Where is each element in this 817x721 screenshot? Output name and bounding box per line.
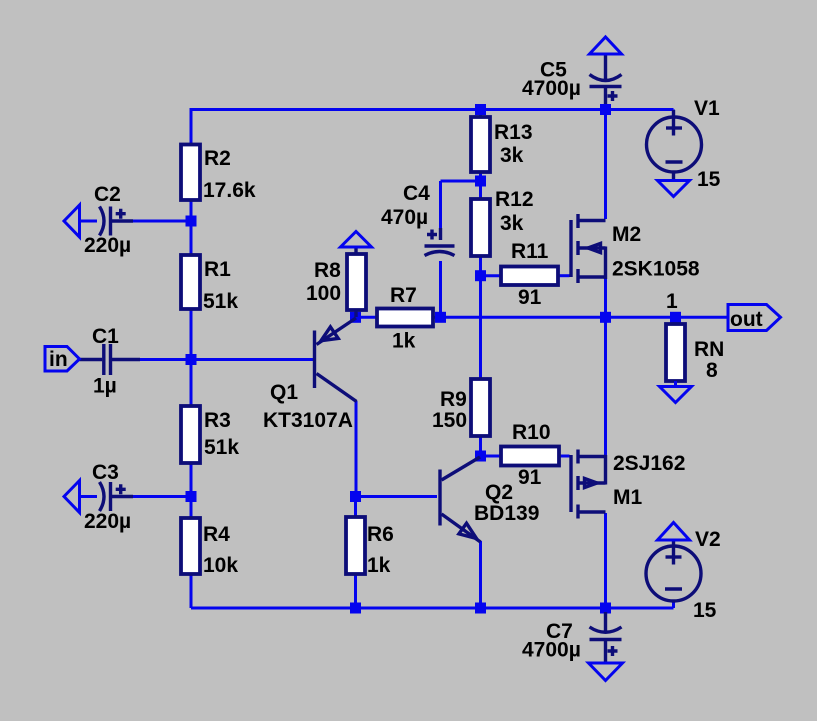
wire R1 to input node (190, 309, 193, 360)
wire R13 to R12 (479, 172, 482, 199)
port out (728, 305, 781, 332)
svg-text:R11: R11 (511, 240, 549, 263)
power arrow above C5 (590, 37, 622, 54)
wire V2 to bottom rail (672, 601, 675, 608)
svg-text:R9: R9 (440, 388, 467, 411)
svg-text:R3: R3 (204, 409, 231, 432)
svg-text:2SJ162: 2SJ162 (613, 452, 685, 475)
wire R11 node down to R9 (479, 276, 482, 379)
svg-text:2SK1058: 2SK1058 (612, 258, 700, 281)
node R6 bottom rail (350, 603, 361, 614)
wire C3 net (131, 495, 191, 498)
svg-text:1k: 1k (367, 554, 391, 577)
resistor RN 8 (666, 324, 724, 387)
svg-text:17.6k: 17.6k (203, 179, 256, 202)
node M2/M1 out (600, 312, 611, 323)
node R13 top (475, 104, 486, 115)
wire C3 node to R4 (190, 497, 193, 519)
svg-text:91: 91 (518, 466, 542, 489)
resistor R11 91 (501, 240, 558, 309)
resistor R3 51k (181, 406, 239, 463)
wire R9 to R10 node (479, 436, 482, 456)
wire input node to Q1 base (134, 358, 313, 361)
svg-text:M1: M1 (613, 486, 642, 509)
svg-text:R10: R10 (512, 421, 551, 444)
wire out net (676, 316, 730, 319)
svg-text:15: 15 (697, 168, 721, 191)
capacitor C4 470u (381, 182, 455, 256)
wire C4 vertical top (439, 181, 442, 240)
wire input node to R3 (190, 360, 193, 407)
ground arrow left of C2 (64, 205, 80, 237)
svg-text:R13: R13 (494, 121, 533, 144)
node R8/R7/Q1e (350, 312, 361, 323)
wire R8 node to R7 (356, 316, 378, 319)
capacitor C7 4700u (522, 612, 622, 663)
svg-text:R4: R4 (203, 523, 230, 546)
svg-text:BD139: BD139 (474, 502, 539, 525)
wire M1 source vertical from out node (604, 317, 607, 455)
wire R10 left stub (481, 455, 502, 458)
node R7/C4 (435, 312, 446, 323)
wire R3 to C3 node (190, 463, 193, 497)
wire M2 source vertical to out node (604, 278, 607, 317)
svg-text:R7: R7 (390, 284, 417, 307)
svg-text:1µ: 1µ (93, 375, 117, 398)
resistor R13 3k (471, 117, 533, 172)
wire R10 right stub to M1 gate (559, 455, 570, 458)
capacitor C2 220u (80, 183, 134, 257)
resistor R12 3k (471, 188, 534, 256)
svg-text:RN: RN (694, 338, 724, 361)
wire C4 top net (441, 180, 481, 183)
wire R11 left stub (481, 274, 502, 277)
svg-text:1: 1 (666, 290, 678, 313)
node C3/R3/R4 (186, 491, 197, 502)
node R9/R10/Q2c (475, 451, 486, 462)
ground arrow below V1 (658, 181, 690, 197)
capacitor C1 1u (80, 325, 141, 398)
transistor Q1 KT3107A (263, 318, 357, 432)
svg-text:C2: C2 (94, 183, 121, 206)
mosfet M2 2SK1058 (571, 214, 700, 283)
svg-text:100: 100 (306, 282, 341, 305)
resistor R4 10k (181, 518, 238, 577)
port in (45, 347, 80, 372)
svg-text:91: 91 (518, 286, 542, 309)
svg-text:4700µ: 4700µ (522, 639, 581, 662)
ground arrow left of C3 (64, 481, 80, 513)
wire R12 to R11 node (479, 256, 482, 276)
svg-text:4700µ: 4700µ (522, 77, 581, 100)
svg-text:470µ: 470µ (381, 206, 428, 229)
node input (186, 354, 197, 365)
resistor R8 100 (306, 247, 366, 317)
power arrow above V2 (658, 523, 690, 541)
mosfet M1 2SJ162 (571, 450, 685, 519)
ground arrow below C7 (589, 663, 623, 681)
svg-text:R12: R12 (495, 188, 534, 211)
svg-text:in: in (49, 348, 68, 371)
wire C4 vertical bottom (439, 261, 442, 317)
svg-text:220µ: 220µ (84, 510, 131, 533)
source V2 15 (646, 528, 721, 622)
svg-text:15: 15 (693, 599, 717, 622)
svg-text:M2: M2 (612, 223, 641, 246)
wire R6 stub top (354, 497, 357, 518)
resistor R6 1k (346, 517, 394, 577)
wire M2 drain vertical (604, 110, 607, 220)
svg-text:C3: C3 (92, 461, 119, 484)
node Q2e bottom rail (475, 603, 486, 614)
wire V1 drop (672, 110, 675, 118)
wire R4 to bottom rail (190, 574, 193, 608)
svg-text:C1: C1 (92, 325, 119, 348)
svg-text:3k: 3k (500, 144, 524, 167)
node C5 top rail (600, 104, 611, 115)
wire mid net C4 node to M nodes (441, 316, 676, 319)
wire top rail (191, 108, 674, 111)
capacitor C3 220u (80, 461, 134, 533)
svg-text:KT3107A: KT3107A (263, 409, 353, 432)
svg-text:150: 150 (432, 409, 467, 432)
resistor R1 51k (181, 255, 238, 313)
resistor R2 17.6k (181, 145, 256, 203)
node C2/R2/R1 (186, 216, 197, 227)
svg-text:51k: 51k (203, 290, 238, 313)
wire R13 top stub (479, 110, 482, 118)
wire Q2 emitter vertical (479, 541, 482, 608)
svg-text:out: out (730, 308, 763, 331)
node RN top (670, 312, 681, 323)
wire M1 drain vertical (604, 513, 607, 608)
wire left rail down to R2 (190, 108, 193, 145)
power arrow above R8 (341, 232, 372, 248)
svg-text:R2: R2 (204, 147, 231, 170)
svg-text:Q2: Q2 (485, 481, 513, 504)
svg-text:3k: 3k (500, 212, 524, 235)
resistor R7 1k (377, 284, 433, 353)
capacitor C5 4700u (522, 55, 622, 104)
node M1/C7 bottom rail (600, 603, 611, 614)
svg-text:R8: R8 (314, 259, 341, 282)
svg-text:220µ: 220µ (84, 234, 131, 257)
svg-text:R1: R1 (204, 258, 231, 281)
wire R6 stub bottom (354, 574, 357, 608)
wire R2 to R1 (190, 199, 193, 255)
node R12/R11/R9 (475, 270, 486, 281)
wire bottom rail (191, 607, 674, 610)
wire Q1 collector node to Q2 base (356, 495, 438, 498)
node R13/R12/C4 (475, 176, 486, 187)
svg-text:51k: 51k (204, 436, 239, 459)
svg-text:V2: V2 (695, 528, 721, 551)
transistor Q2 BD139 (440, 457, 539, 542)
svg-text:R6: R6 (367, 523, 394, 546)
svg-text:8: 8 (706, 359, 718, 382)
svg-text:10k: 10k (203, 554, 238, 577)
wire C2 net (131, 220, 191, 223)
wire Q1 collector vertical (355, 401, 358, 497)
svg-text:C4: C4 (403, 182, 430, 205)
svg-text:1k: 1k (392, 330, 416, 353)
ground arrow below RN (660, 387, 692, 403)
source V1 15 (647, 97, 721, 191)
resistor R9 150 (432, 379, 490, 436)
node Q1c/R6/Q2b (350, 491, 361, 502)
svg-text:Q1: Q1 (270, 381, 298, 404)
svg-text:V1: V1 (694, 97, 720, 120)
wire R11 right stub to M2 gate (558, 274, 570, 277)
resistor R10 91 (501, 421, 559, 489)
wire R7 to C4 node (433, 316, 441, 319)
